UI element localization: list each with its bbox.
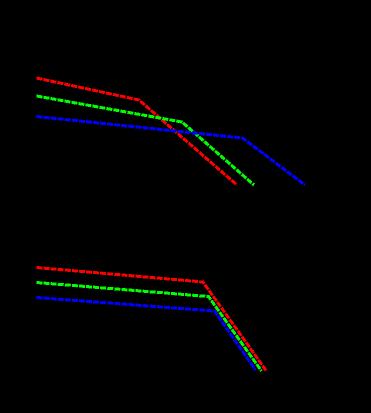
bottom plot: blue curve — [37, 298, 256, 371]
bottom plot: red curve — [37, 268, 267, 371]
top plot: red curve — [37, 78, 238, 185]
top plot: blue curve — [37, 117, 306, 186]
top plot: green curve — [37, 96, 255, 185]
bottom plot: green curve — [37, 283, 262, 372]
